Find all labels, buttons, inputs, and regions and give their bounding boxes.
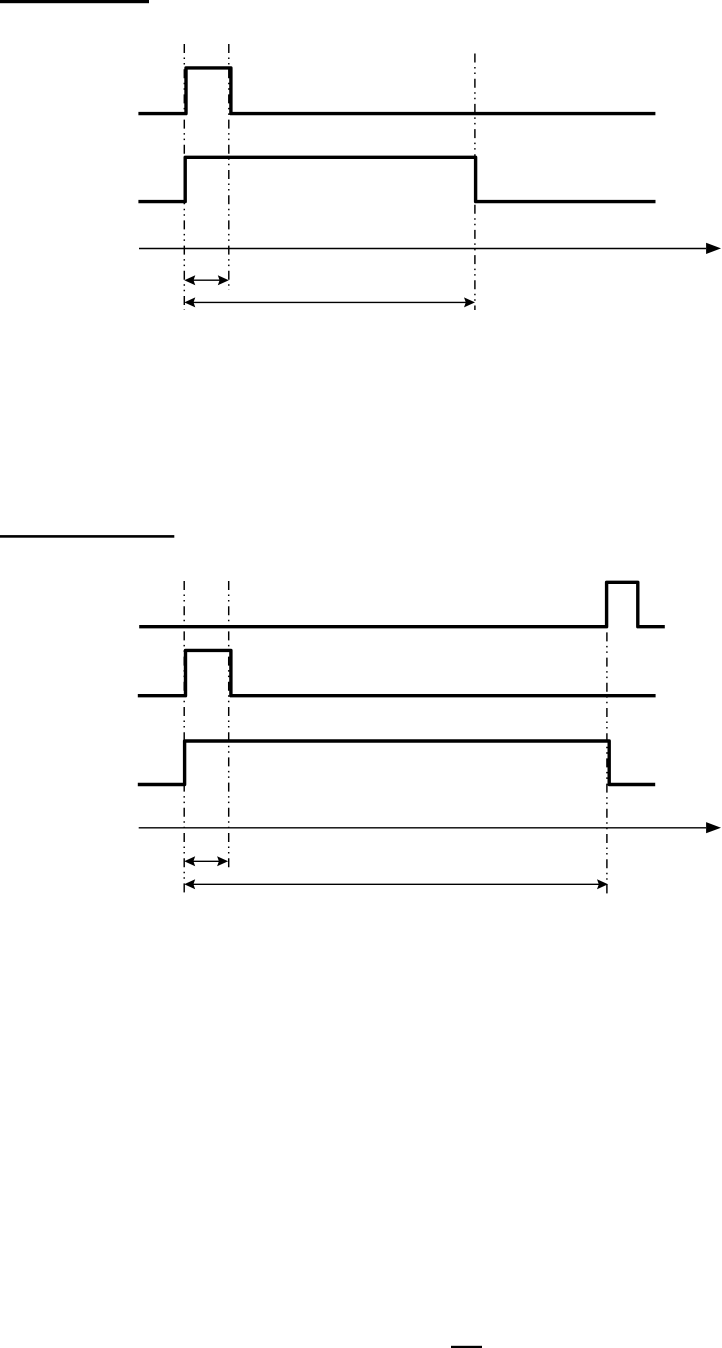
- waveform signal C (diagram 2: long pulse): [138, 741, 655, 785]
- waveform signal A (diagram 2: late pulse): [139, 582, 665, 626]
- dimension arrow short (diagram 1, pulse width): [186, 279, 227, 281]
- guide line t2' (diagram 2, dash-dot-dot): [606, 582, 608, 895]
- dimension arrow short (diagram 2, pulse width): [186, 860, 226, 862]
- time axis (diagram 1): [139, 248, 706, 250]
- dimension arrow long (diagram 1, period): [186, 301, 473, 303]
- guide line t2 (diagram 1, dash-dot-dot): [474, 54, 476, 311]
- waveform signal B (diagram 2: short pulse): [138, 650, 656, 695]
- heading underline (top of page, partially cropped): [0, 0, 149, 3]
- time axis arrowhead (diagram 2): [706, 822, 721, 833]
- dimension arrow long (diagram 2, period): [186, 883, 606, 885]
- guide line t0' (diagram 2, dash-dot-dot): [183, 581, 185, 897]
- guide line t1' (diagram 2, dash-dot-dot): [228, 581, 230, 872]
- guide line t0 (diagram 1, dash-dot-dot): [183, 44, 185, 310]
- time axis (diagram 2): [139, 827, 706, 829]
- waveform signal 1 (diagram 1: short pulse): [138, 68, 655, 114]
- waveform signal 2 (diagram 1: long pulse): [138, 157, 655, 201]
- guide line t1 (diagram 1, dash-dot-dot): [228, 44, 230, 290]
- heading underline (diagram 2 section): [0, 535, 174, 538]
- time axis arrowhead (diagram 1): [706, 243, 721, 254]
- overline of signal name (bottom of page, cropped): [451, 1346, 482, 1348]
